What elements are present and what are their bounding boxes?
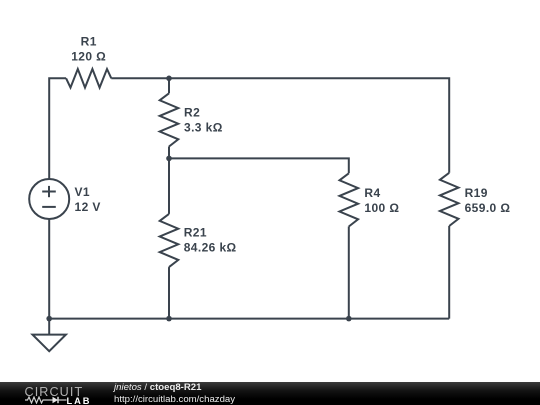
svg-text:R2: R2 (184, 105, 200, 119)
svg-text:659.0 Ω: 659.0 Ω (465, 201, 511, 215)
svg-text:120 Ω: 120 Ω (71, 50, 106, 64)
svg-text:R1: R1 (81, 35, 97, 49)
svg-text:3.3 kΩ: 3.3 kΩ (184, 120, 223, 134)
svg-text:V1: V1 (75, 185, 90, 199)
svg-text:R4: R4 (364, 186, 380, 200)
svg-text:12 V: 12 V (75, 200, 101, 214)
svg-text:100 Ω: 100 Ω (364, 201, 399, 215)
svg-text:84.26 kΩ: 84.26 kΩ (184, 240, 237, 254)
svg-text:R19: R19 (465, 186, 488, 200)
svg-text:R21: R21 (184, 225, 207, 239)
